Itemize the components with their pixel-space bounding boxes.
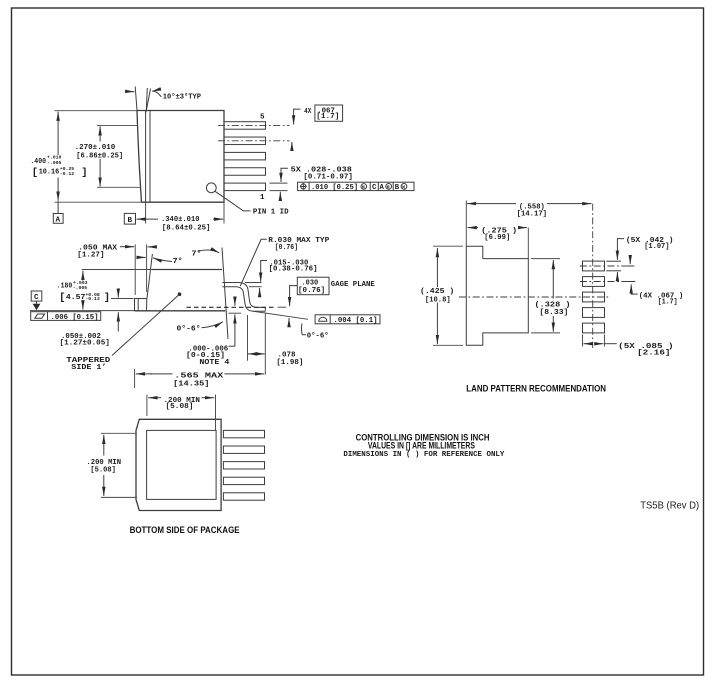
- svg-text:SIDE 1’: SIDE 1’: [71, 364, 106, 372]
- svg-text:.270±.010: .270±.010: [75, 144, 116, 152]
- svg-text:PIN 1 ID: PIN 1 ID: [253, 209, 289, 217]
- svg-text:0°-6°: 0°-6°: [177, 324, 201, 333]
- svg-text:[2.16]: [2.16]: [637, 350, 670, 358]
- svg-text:LAND PATTERN RECOMMENDATION: LAND PATTERN RECOMMENDATION: [466, 384, 606, 395]
- svg-text:5: 5: [260, 114, 265, 122]
- svg-text:[1.07]: [1.07]: [644, 243, 669, 251]
- svg-text:B: B: [128, 217, 133, 225]
- svg-text:[5.08]: [5.08]: [166, 403, 194, 411]
- svg-text:4X: 4X: [304, 108, 312, 116]
- svg-text:10°±3°TYP: 10°±3°TYP: [163, 92, 202, 101]
- svg-text:B: B: [395, 184, 400, 192]
- svg-text:[1.27±0.05]: [1.27±0.05]: [60, 339, 110, 347]
- svg-text:M: M: [387, 184, 390, 190]
- svg-text:A: A: [56, 216, 61, 224]
- svg-text:-.005: -.005: [73, 285, 88, 291]
- svg-text:1: 1: [260, 194, 265, 202]
- svg-text:.010 [0.25]: .010 [0.25]: [311, 184, 358, 192]
- svg-text:-.005: -.005: [47, 160, 62, 166]
- svg-text:4.57: 4.57: [66, 294, 86, 302]
- svg-text:[6.86±0.25]: [6.86±0.25]: [76, 152, 123, 160]
- svg-text:GAGE PLANE: GAGE PLANE: [331, 281, 375, 289]
- svg-text:]: ]: [104, 292, 110, 304]
- svg-text:.340±.010: .340±.010: [161, 216, 200, 224]
- svg-text:[1.7]: [1.7]: [316, 113, 339, 121]
- svg-text:10.16: 10.16: [39, 169, 60, 177]
- svg-text:.004 [0.1]: .004 [0.1]: [334, 317, 378, 325]
- svg-text:.006 [0.15]: .006 [0.15]: [51, 314, 99, 322]
- svg-text:[: [: [32, 167, 38, 179]
- svg-text:DIMENSIONS IN ( ) FOR REFERENC: DIMENSIONS IN ( ) FOR REFERENCE ONLY: [343, 451, 504, 459]
- svg-text:VALUES IN [] ARE MILLIMETERS: VALUES IN [] ARE MILLIMETERS: [368, 440, 475, 450]
- svg-text:[8.64±0.25]: [8.64±0.25]: [162, 224, 211, 232]
- svg-text:[0.76]: [0.76]: [298, 287, 325, 295]
- svg-text:[0.38-0.76]: [0.38-0.76]: [269, 266, 318, 274]
- svg-text:A: A: [380, 184, 385, 192]
- svg-text:M: M: [402, 184, 405, 190]
- svg-text:[8.33]: [8.33]: [539, 309, 568, 317]
- svg-text:[0.76]: [0.76]: [275, 244, 298, 252]
- svg-text:7°: 7°: [173, 257, 183, 266]
- svg-text:-0.13: -0.13: [85, 296, 100, 302]
- svg-text:[14.35]: [14.35]: [173, 380, 209, 388]
- svg-text:[1.7]: [1.7]: [658, 299, 678, 307]
- svg-text:]: ]: [81, 167, 87, 179]
- svg-text:[14.17]: [14.17]: [517, 210, 547, 218]
- svg-text:-0.12: -0.12: [60, 171, 75, 177]
- svg-text:TS5B (Rev D): TS5B (Rev D): [640, 500, 699, 512]
- svg-text:C: C: [372, 184, 377, 192]
- svg-text:NOTE 4: NOTE 4: [199, 359, 229, 367]
- svg-text:0°-6°: 0°-6°: [307, 331, 329, 340]
- svg-text:.180: .180: [57, 283, 73, 291]
- svg-text:(.425 ): (.425 ): [420, 288, 454, 296]
- svg-text:+.010: +.010: [47, 155, 62, 161]
- svg-text:[6.99]: [6.99]: [484, 234, 510, 242]
- svg-text:[: [: [59, 292, 65, 304]
- svg-text:[1.27]: [1.27]: [77, 251, 104, 259]
- svg-text:M: M: [362, 184, 365, 190]
- svg-text:C: C: [34, 294, 39, 302]
- svg-text:[5.08]: [5.08]: [90, 466, 116, 474]
- svg-text:[10.8]: [10.8]: [425, 296, 451, 304]
- svg-text:[0.71-0.97]: [0.71-0.97]: [303, 174, 353, 182]
- svg-text:[1.98]: [1.98]: [276, 359, 303, 367]
- svg-text:.400: .400: [30, 158, 46, 166]
- svg-text:BOTTOM SIDE OF PACKAGE: BOTTOM SIDE OF PACKAGE: [130, 525, 240, 536]
